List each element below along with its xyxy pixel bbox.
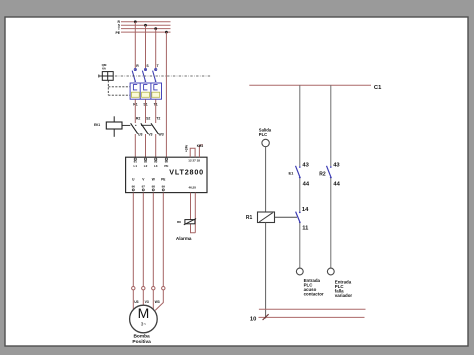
wire C1 to contact E1 <box>299 85 301 166</box>
svg-text:97: 97 <box>142 184 146 188</box>
wire T contactor to drive <box>155 134 157 157</box>
motor terminal W <box>152 287 155 290</box>
alarm wire return <box>191 224 196 233</box>
svg-text:PE: PE <box>115 31 120 35</box>
svg-text:E1: E1 <box>289 170 295 175</box>
wire R1 to rail 10 <box>265 223 267 319</box>
disconnect switch pole R <box>132 64 139 82</box>
svg-text:M: M <box>138 305 150 321</box>
svg-text:VLT2800: VLT2800 <box>169 168 204 177</box>
svg-text:43: 43 <box>302 162 309 168</box>
linkage dot <box>135 125 136 126</box>
svg-text:W: W <box>152 178 155 182</box>
trip indicator pole 2 <box>142 92 150 97</box>
supply rail L2 <box>121 24 171 26</box>
supply rail L3 <box>121 28 171 30</box>
PLC input terminal falla variador <box>327 268 334 275</box>
svg-text:R1: R1 <box>246 215 253 221</box>
contactor contact pole R <box>131 123 138 133</box>
svg-text:Bomba: Bomba <box>133 333 150 339</box>
svg-text:PE: PE <box>164 164 168 168</box>
motor operator QM box <box>99 72 113 81</box>
wire R contactor to drive <box>134 134 136 157</box>
output terminal 98 <box>152 184 156 191</box>
mechanical linkage dash-dot line <box>115 75 211 77</box>
svg-text:46,55: 46,55 <box>189 186 197 190</box>
svg-text:U3: U3 <box>138 133 143 137</box>
svg-text:R8: R8 <box>177 220 181 224</box>
junction node rail2/phase S <box>144 24 147 27</box>
svg-text:L2: L2 <box>144 164 148 168</box>
svg-text:PE: PE <box>161 178 165 182</box>
svg-text:44: 44 <box>303 181 310 187</box>
svg-text:11: 11 <box>302 226 309 232</box>
heater element pole 1 <box>133 85 137 90</box>
wire phase T drop to switch <box>155 29 157 69</box>
wire phase R drop to switch <box>134 22 136 69</box>
wire PE to motor frame <box>155 290 163 311</box>
linkage R1 coil to contact <box>275 216 298 218</box>
connection slash at rail 10 <box>263 314 269 320</box>
svg-text:L1: L1 <box>134 164 138 168</box>
return rail 10 <box>259 316 365 318</box>
svg-text:99: 99 <box>162 184 166 188</box>
svg-text:Alarma: Alarma <box>176 236 192 241</box>
wire T block to contactor <box>155 99 157 123</box>
output terminal 96 <box>132 184 136 191</box>
wire terminal to motor U <box>132 290 134 310</box>
wire terminal to motor W <box>152 290 154 310</box>
svg-text:14: 14 <box>302 207 309 213</box>
wire drive output V <box>142 193 144 287</box>
svg-text:Positiva: Positiva <box>132 339 151 345</box>
trip indicator pole 1 <box>131 92 139 97</box>
contactor contact pole S <box>141 123 148 133</box>
wire S block to contactor <box>145 99 147 123</box>
svg-text:L3: L3 <box>154 164 158 168</box>
svg-text:R2: R2 <box>319 172 326 178</box>
heater element pole 2 <box>144 85 148 90</box>
svg-text:43: 43 <box>333 162 340 168</box>
motor terminal PE <box>162 287 165 290</box>
svg-text:S2: S2 <box>146 116 150 120</box>
svg-text:EK1: EK1 <box>94 123 100 127</box>
output terminal 97 <box>142 184 146 191</box>
drive input terminal 93 <box>154 158 158 168</box>
supply rail L1 <box>121 21 171 23</box>
PLC input terminal acuso contactor <box>296 268 303 275</box>
wire C1 to contact R2 <box>330 85 332 166</box>
label Entrada PLC acuso contactor <box>304 278 324 297</box>
return rail upper <box>259 308 366 310</box>
output terminal 99 <box>162 184 166 191</box>
PLC output terminal Salida PLC <box>259 127 272 146</box>
drive input terminal 95 <box>164 158 168 168</box>
svg-text:V3: V3 <box>145 300 149 304</box>
jumper 12 to 27 <box>190 148 195 157</box>
wire S contactor to drive <box>145 134 147 157</box>
motor M1 <box>130 305 158 333</box>
wire PE drop to drive <box>165 32 167 157</box>
linkage bar <box>141 124 151 126</box>
wire drive output U <box>132 193 134 287</box>
svg-text:KB1: KB1 <box>197 144 204 148</box>
svg-text:variador: variador <box>335 293 353 298</box>
alarm relay R8 <box>184 219 196 225</box>
svg-text:V3: V3 <box>148 133 152 137</box>
control rail C1 <box>249 84 371 86</box>
drive input terminal 92 <box>144 158 148 168</box>
alarm wire 46 <box>190 193 192 220</box>
svg-text:+24v: +24v <box>185 145 189 152</box>
relay contact R1 14/11 <box>296 207 310 231</box>
relay contact R2 43/44 <box>319 162 340 187</box>
supply rail PE <box>121 31 171 33</box>
wire drive output PE <box>162 193 164 287</box>
wire terminal to motor V <box>142 290 144 307</box>
wire phase S drop to switch <box>145 25 147 68</box>
wire terminal 18 to KB1 <box>199 145 203 157</box>
motor terminal V <box>142 287 145 290</box>
svg-text:PLC: PLC <box>259 132 267 137</box>
svg-text:W3: W3 <box>158 133 163 137</box>
svg-text:98: 98 <box>152 184 156 188</box>
svg-text:contactor: contactor <box>304 292 324 297</box>
trip indicator pole 3 <box>152 92 160 97</box>
wire contact R2 to PLC input <box>330 178 332 268</box>
svg-text:3~: 3~ <box>141 321 147 326</box>
svg-text:96: 96 <box>132 184 136 188</box>
contactor coil EK1 <box>106 116 122 137</box>
drive input terminal 91 <box>134 158 138 168</box>
linkage dashed to overload block <box>108 80 130 95</box>
svg-text:T2: T2 <box>156 116 160 120</box>
junction node rail1/phase R <box>134 20 137 23</box>
svg-text:C1: C1 <box>374 85 382 91</box>
disconnect switch pole S <box>142 64 149 82</box>
wire Salida PLC to relay R1 <box>265 147 267 212</box>
junction node rail4/PE <box>165 31 168 34</box>
relay coil R1 <box>258 212 275 223</box>
junction node rail3/phase T <box>154 27 157 30</box>
wire contact E1 to contact R1 <box>299 178 301 211</box>
alarm wire 55 <box>194 193 196 233</box>
disconnect switch pole T <box>153 64 160 82</box>
aux contact E1 43/44 <box>289 162 310 187</box>
svg-text:U3: U3 <box>134 300 138 304</box>
svg-text:R2: R2 <box>136 116 141 120</box>
wire drive output W <box>152 193 154 287</box>
contactor contact pole T <box>151 123 158 133</box>
label Entrada PLC falla variador <box>335 279 353 298</box>
heater element pole 3 <box>154 85 158 90</box>
VFD drive U1 box <box>126 157 207 192</box>
wire R block to contactor <box>134 99 136 123</box>
motor terminal U <box>132 287 135 290</box>
svg-text:44: 44 <box>333 181 340 187</box>
coil linkage line <box>122 124 130 126</box>
svg-text:W3: W3 <box>155 300 160 304</box>
svg-text:10: 10 <box>250 316 256 322</box>
overload / breaker block <box>130 83 161 99</box>
svg-text:12 27 18: 12 27 18 <box>188 158 200 162</box>
wire contact R1 to PLC input <box>299 223 301 269</box>
